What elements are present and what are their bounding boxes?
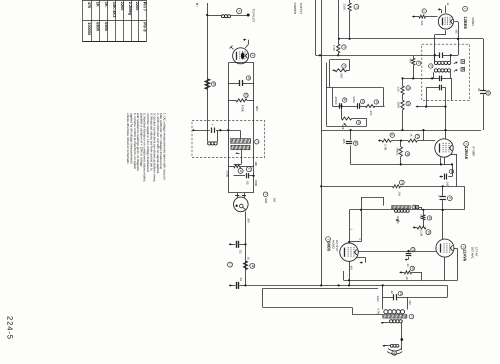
svg-text:SUPPLY: SUPPLY [299,3,303,15]
svg-text:1K: 1K [410,134,413,137]
svg-text:.05: .05 [245,181,249,185]
wire V2 cathode bits [440,157,445,165]
svg-text:DET AVC: DET AVC [471,247,475,259]
svg-text:18K: 18K [254,161,258,166]
ref R9 [374,100,378,104]
svg-text:1K: 1K [104,2,109,7]
svg-text:50B5: 50B5 [327,242,332,252]
capacitor C2 across rails [228,80,254,86]
wire V1 cathode [434,30,446,62]
arrow speaker [382,345,390,347]
svg-text:B: B [461,68,465,70]
label V4 name [327,242,332,252]
svg-text:.05: .05 [477,88,480,92]
svg-text:B+: B+ [195,3,199,7]
label C15 value [446,181,450,187]
ref T3 [409,314,414,319]
label R20 value [405,276,408,280]
inductor T3 secondary [390,320,403,323]
capacitor C14 bypass [480,91,486,94]
resistor R18 [422,210,425,228]
wire V5 bottom pins [236,61,245,62]
wire T2 left lead [349,209,394,211]
ref R10 [406,102,410,106]
wire V4 cath tap [356,257,366,263]
label R18 value [419,214,422,219]
wire V1 plate [455,22,460,56]
label C5 value [239,277,243,281]
wire V1 grid stub arrow [438,8,442,13]
boxed letter A [461,60,465,64]
inductor T1 secondary [434,69,450,72]
svg-text:.02: .02 [390,290,393,294]
wire bus cap row [230,284,247,286]
capacitor C18 tone [394,294,397,300]
resistor R10 100K [401,95,404,132]
ref R6 [354,4,359,9]
wire right plate drop [483,39,485,130]
wire screen loop [330,60,350,88]
label R9 value [369,111,373,116]
svg-text:22K: 22K [420,21,424,26]
wire vertical rail left [228,63,230,193]
arrow R20 ground [399,271,402,273]
wire V1 signal grid [430,16,437,18]
ref R13 [415,134,419,138]
ref V4 [326,237,331,242]
label T3 right [408,300,411,305]
label V1 pin top [446,3,449,6]
wire avc box left [326,63,328,127]
ref C3 [247,167,252,172]
label C10 value [342,138,346,144]
svg-text:A: A [461,60,465,62]
label R7 value [332,45,336,51]
ref L3 [255,140,259,144]
label V4 role2 [335,240,339,252]
capacitor C8 [340,103,342,109]
wire AVC bus [321,130,481,132]
ref C14 [486,91,490,95]
svg-text:2200: 2200 [135,2,140,11]
wire out trans right [383,297,408,309]
label C3 value [245,181,249,185]
label C18 value [390,290,393,294]
wire T1 top cap row [413,54,458,56]
svg-text:OUTPUT: OUTPUT [335,240,339,252]
label R13 value [410,134,413,137]
svg-text:2200: 2200 [120,2,125,11]
arrow osc tap [235,152,239,154]
label V3 role2 [474,247,478,257]
label R15 value [420,21,424,26]
label C9 value [352,97,356,104]
tube V5 35W4 rectifier [233,48,249,64]
inductor T1 primary [434,55,450,64]
svg-text:47K: 47K [369,111,373,116]
wire heater line [263,288,383,314]
svg-text:1K: 1K [96,2,101,7]
label C8 value [334,97,338,105]
svg-text:560: 560 [340,74,344,79]
inductor pilot choke L1 [222,15,231,18]
arrow ground 2 [229,284,232,286]
transformer T3 primary [383,315,407,319]
label C7 value [264,198,268,204]
label power col2 [299,3,303,15]
svg-text:+: + [211,124,215,126]
ref R2 [244,93,248,97]
wire V4 cathode [348,261,350,285]
table cell values [87,2,148,35]
resistor R20 [400,271,422,280]
wire B+ line A [206,3,208,130]
label V2 name [464,147,469,160]
ref R16 [417,61,421,65]
svg-text:AUDIO: AUDIO [332,240,336,250]
ref C18 [398,291,402,295]
svg-text:36V: 36V [246,218,250,223]
tube V3 12AV6 [436,239,454,257]
svg-text:455KC: 455KC [396,216,399,224]
svg-text:POWER: POWER [293,3,297,15]
svg-text:12BE6: 12BE6 [463,17,468,30]
wire V4 plate [358,251,360,252]
wire osc grid line [193,129,240,131]
ref V1 [463,6,468,11]
label C14 value [477,88,480,92]
label R8 value [340,74,344,79]
ref T1 [429,64,433,68]
inductor T3 primary turns [384,310,405,314]
wire avc stub arrow [416,105,446,107]
svg-text:1MEG: 1MEG [396,148,400,156]
ref C16 [447,196,452,201]
label V2 role [472,147,476,157]
capacitor C12 T1 secondary [440,76,442,82]
wire speaker lead [400,323,403,350]
label V1 name [463,17,468,30]
svg-text:47K: 47K [409,58,413,63]
wire T2 right lead [419,207,422,210]
capacitor C9 [358,103,360,109]
transformer T1 shield dashed box [422,44,470,100]
svg-text:12AV6: 12AV6 [463,249,468,262]
svg-text:C: C [415,206,419,208]
svg-text:CONV: CONV [471,18,475,27]
svg-text:6800: 6800 [96,22,101,31]
capacitor C5 [237,282,239,289]
wire to pilot lamp [207,14,249,17]
svg-text:1ST AF: 1ST AF [474,247,478,257]
capacitor C10 coupling [346,142,352,144]
ref C7 [263,192,268,197]
capacitor C15 [445,174,447,180]
svg-text:2.2Meg: 2.2Meg [128,2,133,16]
ref T2 [412,205,416,209]
wire avc verticals [333,87,384,106]
ref R21 [406,86,410,90]
wire det bus [320,185,464,187]
ref R18 [427,216,431,220]
ref C8 [343,98,347,102]
svg-text:6.3V: 6.3V [377,309,381,315]
ref R8 [342,64,346,68]
wire V3 right pin [454,249,458,281]
svg-text:.18: .18 [405,276,408,280]
wire lamp pins [235,193,246,198]
arrow C17 ground [405,258,408,260]
wire rectifier box top [228,62,254,64]
wire T2 primary lead [361,197,384,206]
label C17 value [406,263,409,267]
resistor R9 [365,105,375,108]
label R14 value [396,148,400,156]
arrow R8 ground [332,69,335,71]
svg-text:TO PILOT: TO PILOT [252,9,256,23]
boxed letter B [461,68,465,72]
svg-text:unless otherwise noted on sche: unless otherwise noted on schematic. [126,113,130,165]
svg-text:22K: 22K [398,192,401,197]
label pin 5 [358,239,361,241]
ref LS1 [392,351,397,356]
wire out trans left [382,284,384,309]
label V1 role [471,18,475,27]
wire avc row [332,106,384,108]
wire det line [442,186,444,239]
resistor R6 on feed [348,3,351,11]
capacitor C13 grid [440,85,442,91]
ref R5b [250,263,255,268]
label R17 value [398,192,401,197]
arrow V2 cath ground [439,175,442,177]
svg-text:12BA6: 12BA6 [464,147,469,160]
resistor R2 across rails [228,99,254,102]
ref V3 [461,244,466,249]
resistor R17 [393,185,401,188]
wire grid cap row [230,243,247,245]
ref R5a [228,262,233,267]
arrow V4 cath [360,261,363,263]
resistor R7 [337,39,340,57]
wire cluster top [228,166,254,168]
label pin 2 [350,229,353,231]
service notes text block [126,113,166,182]
svg-text:470K: 470K [241,105,245,112]
svg-text:260: 260 [408,300,411,305]
arrow osc grid to tuning [192,129,195,131]
wire out trans feed [407,285,448,297]
svg-text:Pin 7: Pin 7 [143,2,148,11]
label 6.3V [377,309,381,315]
label C16 value [437,195,440,198]
ref V5 [250,53,255,58]
arrow R15 [412,15,415,17]
svg-text:.02: .02 [239,250,243,254]
label R10 value [397,102,401,109]
capacitor C11 T1 primary [440,52,443,58]
svg-text:45V: 45V [350,266,353,271]
ref C17 [411,248,415,252]
svg-text:1.5K: 1.5K [332,45,336,51]
svg-text:.004: .004 [264,198,268,204]
wire vol pot [340,105,342,119]
resistance chart table grid [82,0,146,42]
label 18K [254,161,258,166]
ref C2 [246,76,250,80]
label 2200 cluster [226,171,230,178]
label 45V [350,266,353,271]
wire plate RC [407,250,409,260]
arrow vol wiper [344,123,347,126]
svg-text:.047: .047 [446,181,450,187]
svg-text:2.2M: 2.2M [384,144,388,151]
svg-text:IF AMP: IF AMP [472,147,476,157]
wire grid connector [351,197,362,242]
arrow avc [378,139,381,141]
wire plate bus [339,38,483,40]
wire det bus right corner [464,186,466,210]
label B+ [195,3,199,7]
tube V4 50B5 audio output [340,243,358,261]
label VOL [341,125,345,131]
inductor T2 secondary [394,209,409,212]
label R12 value [384,144,388,151]
resistor R14 1meg [399,141,402,166]
wire V5 plate stub with arrow [243,39,249,48]
potentiometer R11 volume [341,117,366,126]
svg-text:2200: 2200 [226,171,230,178]
wire V5 left pin tick [230,46,234,50]
capacitor C17 [406,254,412,256]
svg-text:47K: 47K [419,214,422,219]
ref R1 [211,82,215,86]
page number 224-5 [6,316,15,340]
wire T1 left return [403,78,427,80]
svg-text:1.5K: 1.5K [397,87,400,93]
wire vertical supply line [321,0,323,285]
svg-text:.005: .005 [342,138,346,144]
ref R20 [410,266,414,270]
wire V1 top pin [445,6,447,13]
svg-text:100000: 100000 [87,22,92,35]
wire vertical feed 2 [349,0,351,40]
wire lamp to bus [245,212,247,286]
wire V3 bottom pin [444,257,446,280]
label V3 name [463,249,468,262]
ref R4 [238,168,243,173]
label T3 left [376,296,379,302]
wire T1 to grid [444,88,446,140]
svg-text:B: B [412,206,415,208]
resistor R21 [401,77,404,94]
resistor R15 [413,15,430,18]
resistor R8 [335,69,350,72]
wire screen bus [316,0,414,56]
resistor R1 on B+ line [205,79,209,89]
wire osc coil tap [234,150,242,165]
svg-text:6800: 6800 [104,22,109,31]
resistor R5 [244,261,248,270]
resistor R13 [408,139,417,142]
wire bottom bus [246,284,448,286]
wire coupling line [349,129,441,165]
wire avc grid line [379,129,435,142]
capacitor C1 osc grid [212,128,215,133]
transformer T2 winding [392,206,411,209]
label R2 value [241,105,245,112]
svg-text:47000: 47000 [334,97,338,105]
inductor L2 osc feedback [208,130,218,145]
svg-text:470: 470 [87,2,92,9]
wire T2 sec lead [409,209,464,211]
svg-text:.02: .02 [406,263,409,267]
ref C9 [360,99,364,103]
resistor R3 cluster [234,165,241,168]
label V3 role1 [471,247,475,259]
label 160 [272,198,276,203]
arrow T2 adj [396,219,400,221]
label R6 value [343,4,347,11]
svg-text:3300: 3300 [254,180,258,187]
capacitor C3 cluster [247,173,249,178]
arrow T3 sec [381,322,390,324]
svg-text:90V: 90V [255,106,259,111]
label C4 value [239,250,243,254]
wire V4 grid line [348,210,350,243]
svg-text:224-5: 224-5 [6,316,15,340]
tube V1 12BE6 converter [438,14,453,29]
svg-text:455: 455 [455,30,458,35]
label R19 value [420,230,423,237]
wire vertical rail right [253,63,255,193]
svg-text:2.2M: 2.2M [420,230,423,237]
svg-text:220K: 220K [343,4,347,11]
wire avc box bottom [327,126,367,128]
ref R11 [356,120,360,124]
label 36V [246,218,250,223]
svg-text:A: A [429,65,432,67]
svg-text:2200: 2200 [352,97,356,104]
ref C10 [354,141,358,145]
label R16 value [409,58,413,63]
label 3300 [254,180,258,187]
svg-text:Pin 8: Pin 8 [143,22,148,32]
svg-text:100K: 100K [397,102,401,109]
ref C15 [449,169,453,173]
svg-text:125V: 125V [376,296,379,302]
ref R17 [399,180,404,185]
ref V2 [464,142,469,147]
wire cluster lower [234,175,255,177]
svg-text:10: 10 [247,257,251,261]
svg-text:160: 160 [272,198,276,203]
label R21 value [397,87,400,93]
svg-text:VOL: VOL [341,125,345,131]
capacitor C16 det [440,197,446,200]
arrow R19 ground [413,226,416,228]
label T2 value [396,216,399,224]
arrow T1 adj 2 [454,69,458,71]
wire V2 plate [451,154,457,186]
label TO PILOT [252,9,256,23]
wire T1 grid cap row [426,88,445,107]
boxed letter C [415,205,419,208]
arrow ground 1 [229,243,232,245]
ref L1 [237,8,242,13]
wire second bus [344,271,458,281]
svg-text:10K-4K3: 10K-4K3 [112,2,117,18]
